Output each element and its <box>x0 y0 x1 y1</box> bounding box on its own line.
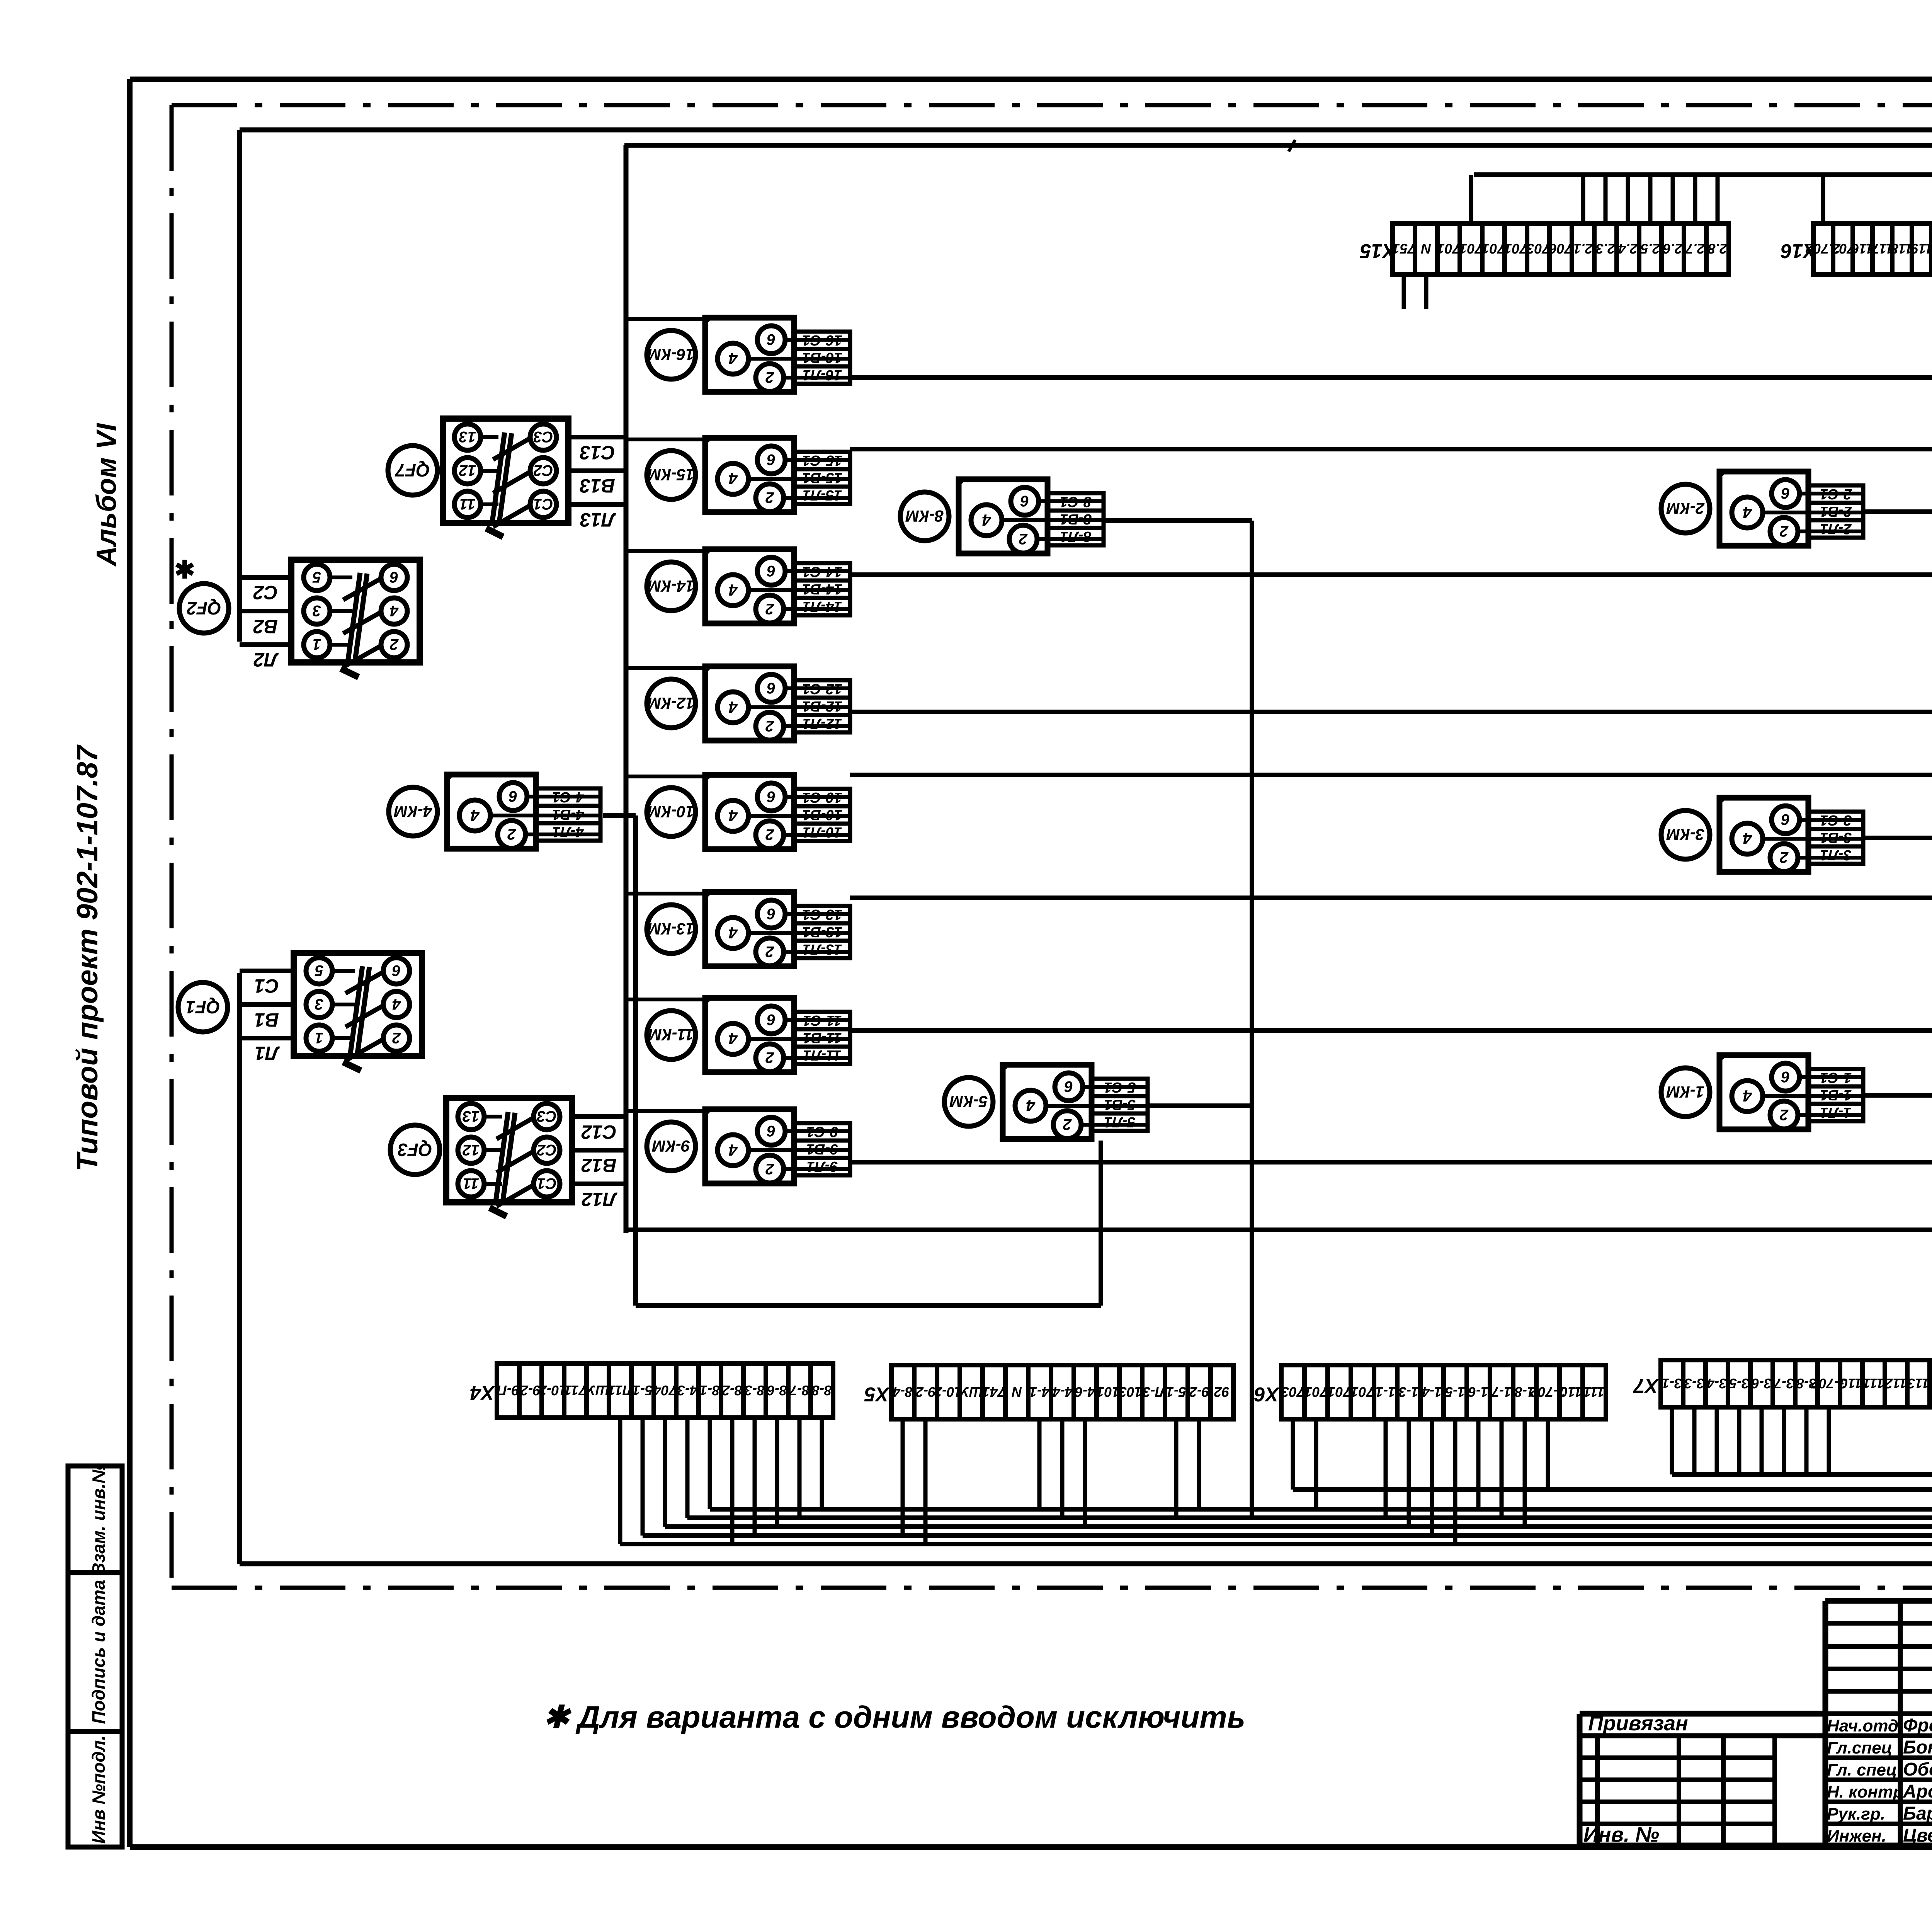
svg-text:QF1: QF1 <box>185 997 220 1017</box>
svg-text:3-Л1: 3-Л1 <box>1820 847 1851 863</box>
svg-text:12-Л1: 12-Л1 <box>803 715 842 732</box>
svg-text:11: 11 <box>459 495 476 512</box>
svg-text:В12: В12 <box>581 1154 617 1176</box>
svg-text:Инв №подл.: Инв №подл. <box>88 1735 109 1844</box>
svg-text:3: 3 <box>315 996 323 1013</box>
svg-text:6: 6 <box>767 679 776 696</box>
svg-text:2.8: 2.8 <box>1708 241 1728 257</box>
svg-text:4: 4 <box>728 698 738 716</box>
svg-text:Фролов: Фролов <box>1903 1715 1932 1736</box>
svg-text:8-КМ: 8-КМ <box>905 507 944 525</box>
svg-text:4: 4 <box>982 511 991 529</box>
svg-text:С2: С2 <box>537 1141 556 1158</box>
svg-text:8-3: 8-3 <box>745 1382 765 1398</box>
svg-text:1-4: 1-4 <box>1422 1384 1442 1400</box>
svg-text:8-1: 8-1 <box>700 1382 720 1398</box>
svg-text:120: 120 <box>1930 241 1932 257</box>
svg-text:110: 110 <box>1840 1376 1862 1391</box>
svg-text:13: 13 <box>463 1108 480 1125</box>
svg-text:116: 116 <box>1851 241 1873 257</box>
svg-text:2: 2 <box>1780 1106 1789 1123</box>
svg-text:3-6: 3-6 <box>1751 1376 1772 1391</box>
svg-text:701: 701 <box>1482 241 1505 257</box>
svg-text:4: 4 <box>1743 1087 1752 1105</box>
svg-text:6: 6 <box>1020 492 1029 509</box>
svg-text:6: 6 <box>767 905 776 922</box>
svg-text:Барчан: Барчан <box>1903 1803 1932 1824</box>
svg-text:Рук.гр.: Рук.гр. <box>1827 1805 1885 1823</box>
svg-text:2.7: 2.7 <box>1685 241 1705 257</box>
svg-text:6: 6 <box>767 562 776 579</box>
svg-text:9-КМ: 9-КМ <box>652 1137 690 1155</box>
svg-text:2.1: 2.1 <box>1573 241 1593 257</box>
svg-text:3-5: 3-5 <box>1729 1376 1749 1391</box>
svg-text:4: 4 <box>728 581 738 599</box>
svg-text:С1: С1 <box>533 495 553 512</box>
svg-text:Х5: Х5 <box>864 1383 890 1405</box>
svg-text:Нач.отд: Нач.отд <box>1827 1716 1898 1735</box>
svg-text:2: 2 <box>765 489 774 506</box>
svg-text:С3: С3 <box>533 428 553 445</box>
svg-text:2.6: 2.6 <box>1663 241 1683 257</box>
svg-text:111: 111 <box>1863 1376 1884 1391</box>
svg-text:9-2: 9-2 <box>1189 1384 1209 1400</box>
svg-text:Л13: Л13 <box>580 509 616 531</box>
svg-text:103: 103 <box>1119 1384 1142 1400</box>
svg-text:4: 4 <box>728 349 738 368</box>
svg-text:4-Л1: 4-Л1 <box>552 824 584 840</box>
svg-text:704: 704 <box>653 1382 677 1398</box>
svg-text:Типовой проект 902-1-107.87: Типовой проект 902-1-107.87 <box>71 744 104 1171</box>
svg-text:11: 11 <box>463 1175 479 1192</box>
svg-text:Л12: Л12 <box>582 1188 617 1210</box>
svg-text:701: 701 <box>1437 241 1460 257</box>
svg-text:111: 111 <box>1584 1384 1605 1400</box>
svg-text:С3: С3 <box>537 1108 556 1125</box>
svg-text:Бондарь: Бондарь <box>1903 1737 1932 1758</box>
svg-text:5-КМ: 5-КМ <box>949 1093 988 1111</box>
svg-text:6: 6 <box>767 788 776 805</box>
svg-text:Н. контр: Н. контр <box>1827 1783 1903 1801</box>
svg-text:4: 4 <box>728 470 738 488</box>
svg-text:16-КМ: 16-КМ <box>647 346 695 364</box>
svg-text:12: 12 <box>459 462 476 479</box>
svg-text:5-1: 5-1 <box>1166 1384 1186 1400</box>
svg-text:4-6: 4-6 <box>1075 1384 1095 1400</box>
svg-text:701: 701 <box>1459 241 1483 257</box>
svg-text:1-3: 1-3 <box>1399 1384 1419 1400</box>
svg-text:5-Л1: 5-Л1 <box>1104 1114 1135 1130</box>
svg-text:QF2: QF2 <box>187 598 221 618</box>
svg-text:119: 119 <box>1911 241 1932 257</box>
svg-text:Инв. №: Инв. № <box>1583 1823 1659 1846</box>
svg-text:3-4: 3-4 <box>1707 1376 1727 1391</box>
svg-text:4-4: 4-4 <box>1053 1384 1073 1400</box>
svg-text:4: 4 <box>1026 1096 1035 1115</box>
svg-text:Л-3: Л-3 <box>1143 1384 1166 1400</box>
svg-text:6: 6 <box>1781 811 1790 828</box>
svg-text:Гл. спец: Гл. спец <box>1827 1760 1897 1779</box>
svg-text:С1: С1 <box>254 975 279 997</box>
svg-text:4: 4 <box>1743 829 1752 848</box>
svg-text:✱: ✱ <box>174 556 195 584</box>
svg-text:701: 701 <box>1504 241 1527 257</box>
svg-text:11-Л1: 11-Л1 <box>803 1047 841 1063</box>
svg-text:8-Л1: 8-Л1 <box>1060 528 1091 545</box>
svg-text:703: 703 <box>1281 1384 1304 1400</box>
svg-text:751: 751 <box>1392 241 1415 257</box>
svg-text:6: 6 <box>1781 485 1790 502</box>
svg-text:2: 2 <box>765 600 774 617</box>
svg-text:Л1: Л1 <box>255 1042 280 1064</box>
svg-text:4: 4 <box>728 807 738 825</box>
svg-text:9-2: 9-2 <box>916 1384 936 1400</box>
svg-text:Л2: Л2 <box>253 649 279 671</box>
svg-text:6: 6 <box>767 1122 776 1139</box>
svg-text:Гл.спец: Гл.спец <box>1827 1738 1892 1757</box>
svg-text:6: 6 <box>767 451 776 468</box>
svg-text:6: 6 <box>1781 1068 1790 1085</box>
svg-text:4: 4 <box>390 602 399 619</box>
svg-text:2: 2 <box>390 636 399 653</box>
svg-text:14-КМ: 14-КМ <box>647 577 695 595</box>
svg-text:2: 2 <box>507 826 516 843</box>
svg-text:Х6: Х6 <box>1254 1383 1280 1405</box>
svg-text:2-Л1: 2-Л1 <box>1820 521 1852 537</box>
svg-text:5-1: 5-1 <box>633 1382 653 1398</box>
svg-text:1-Л1: 1-Л1 <box>1820 1104 1851 1120</box>
svg-text:1-КМ: 1-КМ <box>1666 1083 1704 1101</box>
svg-text:4-КМ: 4-КМ <box>394 802 432 821</box>
svg-text:13-КМ: 13-КМ <box>647 920 695 938</box>
svg-text:2: 2 <box>765 1049 774 1066</box>
svg-text:114: 114 <box>1930 1376 1932 1391</box>
svg-text:2-КМ: 2-КМ <box>1666 499 1705 518</box>
svg-text:2: 2 <box>765 369 774 386</box>
svg-text:10-КМ: 10-КМ <box>647 803 695 821</box>
svg-text:2: 2 <box>1780 849 1789 866</box>
svg-text:14-Л1: 14-Л1 <box>803 598 842 615</box>
svg-text:12: 12 <box>463 1141 480 1158</box>
svg-text:701: 701 <box>1304 1384 1328 1400</box>
svg-text:9-П: 9-П <box>497 1382 519 1398</box>
svg-text:QF3: QF3 <box>398 1140 432 1160</box>
svg-text:1: 1 <box>313 636 321 653</box>
svg-text:13-Л1: 13-Л1 <box>803 941 842 957</box>
svg-text:101: 101 <box>1097 1384 1120 1400</box>
svg-text:С12: С12 <box>581 1121 617 1143</box>
svg-text:3-1: 3-1 <box>1662 1376 1682 1391</box>
svg-text:2: 2 <box>1019 530 1028 547</box>
svg-text:✱ Для варианта с одним вво: ✱ Для варианта с одним вводом исключить <box>543 1700 1245 1734</box>
svg-text:92: 92 <box>1214 1384 1230 1400</box>
svg-text:2.4: 2.4 <box>1618 241 1638 257</box>
svg-text:8-7: 8-7 <box>789 1382 810 1398</box>
svg-text:С2: С2 <box>533 462 553 479</box>
svg-text:QF7: QF7 <box>395 460 430 480</box>
svg-text:Аронсон: Аронсон <box>1903 1781 1932 1802</box>
svg-text:110: 110 <box>1560 1384 1582 1400</box>
svg-text:112: 112 <box>1885 1376 1907 1391</box>
svg-text:9-2: 9-2 <box>520 1382 541 1398</box>
svg-text:8-8: 8-8 <box>812 1382 832 1398</box>
svg-text:13: 13 <box>459 428 476 445</box>
svg-text:2.5: 2.5 <box>1640 241 1660 257</box>
svg-text:8-4: 8-4 <box>893 1384 913 1400</box>
svg-text:В2: В2 <box>253 616 278 637</box>
svg-text:2: 2 <box>392 1029 401 1046</box>
svg-text:15-КМ: 15-КМ <box>647 466 695 484</box>
svg-text:1-1: 1-1 <box>1376 1384 1396 1400</box>
svg-text:3: 3 <box>313 602 321 619</box>
svg-text:6: 6 <box>389 569 398 586</box>
svg-text:5: 5 <box>315 962 323 979</box>
svg-text:Х4: Х4 <box>470 1381 496 1404</box>
svg-text:2: 2 <box>765 717 774 734</box>
svg-text:2: 2 <box>765 1160 774 1177</box>
svg-text:3-7: 3-7 <box>1773 1376 1794 1391</box>
svg-text:4: 4 <box>728 1030 738 1048</box>
svg-text:11-КМ: 11-КМ <box>648 1026 694 1044</box>
svg-text:741: 741 <box>982 1384 1005 1400</box>
svg-text:703: 703 <box>1527 241 1550 257</box>
svg-text:4-1: 4-1 <box>1029 1384 1050 1400</box>
svg-text:4: 4 <box>392 996 401 1013</box>
svg-text:2: 2 <box>1780 523 1789 540</box>
svg-text:701: 701 <box>1328 1384 1351 1400</box>
svg-text:9-Л1: 9-Л1 <box>806 1158 838 1175</box>
svg-text:N: N <box>1012 1384 1022 1400</box>
svg-text:3-3: 3-3 <box>1684 1376 1704 1391</box>
svg-text:6: 6 <box>1064 1078 1073 1095</box>
svg-text:706: 706 <box>1549 241 1572 257</box>
svg-text:2: 2 <box>765 943 774 960</box>
svg-text:2: 2 <box>765 826 774 843</box>
svg-text:16-Л1: 16-Л1 <box>803 367 842 383</box>
svg-text:711: 711 <box>564 1382 586 1398</box>
svg-text:Х7: Х7 <box>1633 1374 1660 1397</box>
svg-text:В13: В13 <box>580 475 615 497</box>
svg-text:8-6: 8-6 <box>767 1382 787 1398</box>
svg-text:1-7: 1-7 <box>1491 1384 1512 1400</box>
svg-text:113: 113 <box>1907 1376 1929 1391</box>
svg-text:10-Л1: 10-Л1 <box>803 824 842 840</box>
svg-text:Взам. инв.№: Взам. инв.№ <box>88 1463 109 1575</box>
svg-text:2: 2 <box>1063 1116 1072 1133</box>
svg-text:4: 4 <box>728 924 738 942</box>
svg-text:1-5: 1-5 <box>1445 1384 1465 1400</box>
svg-text:701: 701 <box>1351 1384 1374 1400</box>
svg-text:Альбом VI: Альбом VI <box>91 422 122 567</box>
svg-text:ШУ: ШУ <box>585 1382 609 1398</box>
svg-text:5: 5 <box>312 569 321 586</box>
svg-text:2.3: 2.3 <box>1596 241 1616 257</box>
svg-text:4: 4 <box>470 806 480 824</box>
svg-text:Привязан: Привязан <box>1588 1712 1688 1735</box>
svg-text:ШУ: ШУ <box>959 1384 983 1400</box>
svg-text:Обозная: Обозная <box>1903 1759 1932 1780</box>
svg-text:8-2: 8-2 <box>722 1382 742 1398</box>
svg-text:4: 4 <box>728 1141 738 1159</box>
svg-text:В1: В1 <box>254 1009 279 1031</box>
svg-text:1-6: 1-6 <box>1468 1384 1488 1400</box>
svg-text:4: 4 <box>1743 503 1752 521</box>
svg-text:С2: С2 <box>253 582 278 603</box>
svg-text:1: 1 <box>315 1029 323 1046</box>
svg-text:С1: С1 <box>537 1175 556 1192</box>
svg-text:Инжен.: Инжен. <box>1827 1827 1886 1845</box>
svg-text:4-3: 4-3 <box>677 1382 698 1398</box>
svg-text:3-КМ: 3-КМ <box>1666 826 1704 844</box>
svg-text:6: 6 <box>767 331 776 348</box>
svg-text:N: N <box>1421 241 1431 257</box>
svg-text:6: 6 <box>509 788 517 805</box>
svg-text:6: 6 <box>392 962 401 979</box>
svg-text:15-Л1: 15-Л1 <box>803 487 842 503</box>
svg-text:Подпись и дата: Подпись и дата <box>88 1580 109 1724</box>
svg-text:Цветочкина: Цветочкина <box>1903 1825 1932 1846</box>
svg-text:6: 6 <box>767 1011 776 1028</box>
svg-text:С13: С13 <box>580 442 615 463</box>
svg-text:12-КМ: 12-КМ <box>647 694 695 712</box>
